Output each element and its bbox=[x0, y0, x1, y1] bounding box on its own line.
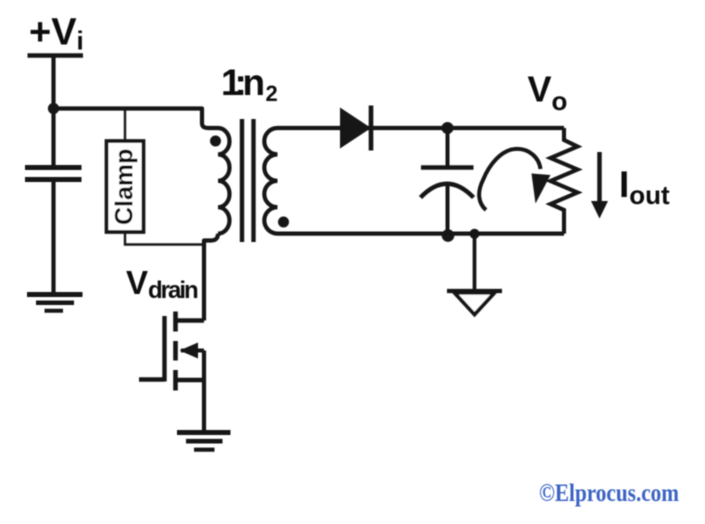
current loop arrow bbox=[479, 149, 540, 210]
svg-text:Vo: Vo bbox=[528, 69, 568, 117]
transformer primary phase dot bbox=[210, 136, 221, 147]
resistor R-load bbox=[551, 128, 578, 234]
svg-text:+Vi: +Vi bbox=[29, 12, 84, 56]
MOSFET Q1 gate bbox=[162, 316, 166, 382]
svg-text:Vdrain: Vdrain bbox=[126, 264, 198, 304]
output capacitor C-out bbox=[421, 165, 474, 170]
supply terminal bar bbox=[28, 53, 84, 58]
svg-text:n: n bbox=[243, 62, 266, 103]
wire: output capacitor to bottom rail bbox=[446, 186, 450, 234]
wire: ground tap bbox=[473, 234, 477, 290]
svg-text:Clamp: Clamp bbox=[111, 149, 139, 225]
svg-text:Iout: Iout bbox=[619, 164, 670, 210]
clamp network box bbox=[107, 141, 144, 232]
MOSFET Q1 source stub bbox=[176, 378, 204, 383]
node: ground tap junction dot bbox=[470, 229, 480, 239]
node: input junction dot bbox=[48, 103, 59, 114]
transformer core bbox=[242, 119, 254, 242]
wire: secondary top to diode and output node bbox=[278, 126, 565, 130]
transformer T1 secondary winding bbox=[264, 128, 277, 234]
node: output top junction dot bbox=[442, 122, 454, 134]
ground (output, open triangle) bbox=[447, 289, 502, 293]
wire: supply down to input capacitor bbox=[51, 56, 55, 169]
wire: source to MOSFET ground bbox=[202, 351, 206, 432]
transformer secondary phase dot bbox=[278, 217, 289, 228]
wire: primary bottom lead to MOSFET drain bbox=[204, 234, 218, 321]
MOSFET Q1 channel bars bbox=[173, 312, 178, 391]
wire: bottom rail bbox=[278, 232, 565, 236]
wire: junction down to output capacitor bbox=[446, 128, 450, 168]
ground (MOSFET source) bbox=[177, 430, 231, 435]
diode D1 bbox=[340, 108, 371, 149]
wire: capacitor to input ground bbox=[51, 179, 55, 293]
node: capacitor bottom junction dot bbox=[442, 229, 455, 242]
Iout arrow bbox=[597, 152, 602, 202]
wire: clamp top tap bbox=[124, 109, 126, 142]
capacitor C-in bbox=[25, 168, 82, 180]
MOSFET Q1 body arrow bbox=[181, 349, 204, 353]
wire: top rail to transformer primary bbox=[54, 109, 219, 129]
wire: clamp bottom to drain node bbox=[125, 232, 203, 245]
transformer T1 primary winding bbox=[218, 128, 230, 234]
ground (input side) bbox=[27, 292, 83, 297]
MOSFET Q1 drain stub bbox=[176, 318, 204, 323]
svg-text:2: 2 bbox=[266, 81, 278, 106]
svg-text:©Elprocus.com: ©Elprocus.com bbox=[539, 480, 679, 507]
